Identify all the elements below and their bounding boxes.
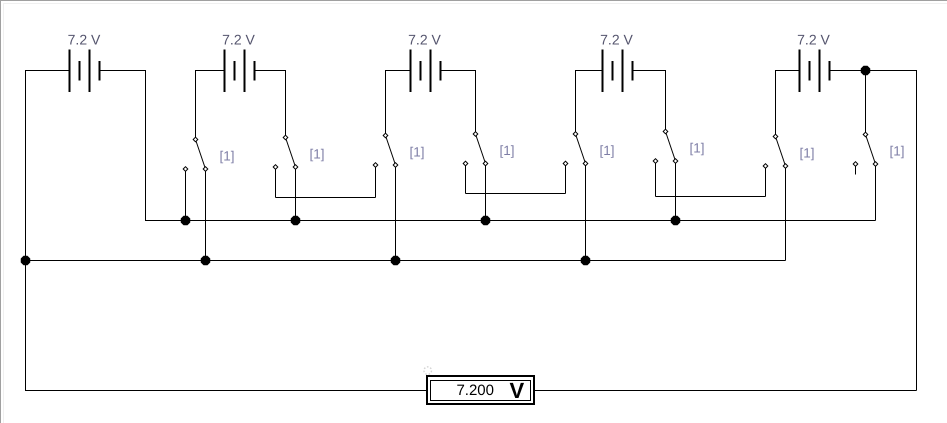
node B5 output junction	[861, 66, 870, 75]
wire S5a blade drop to bus2	[785, 166, 787, 261]
svg-text:7.2 V: 7.2 V	[222, 32, 255, 48]
svg-text:V: V	[510, 378, 525, 403]
battery B5 plates	[800, 50, 830, 93]
wire voltmeter to bottom right	[535, 390, 917, 392]
wire bypass U S3b-S4a	[466, 164, 566, 194]
wire battery B3 right lead	[440, 70, 476, 134]
battery B2 value label 7.2 V	[222, 32, 255, 48]
wire S2a left throw drop to bus1	[185, 169, 187, 221]
wire left rail vertical (x=25)	[25, 70, 27, 391]
screen border left edge	[0, 0, 2, 423]
node bus2/S3a junction	[391, 256, 400, 265]
wire S4b blade drop to bus1	[675, 161, 677, 221]
voltmeter ghost selection mark	[424, 367, 432, 375]
svg-text:[1]: [1]	[310, 147, 325, 162]
svg-text:7.200: 7.200	[456, 382, 494, 399]
wire battery B5 right lead to right rail	[829, 70, 917, 135]
svg-text:[1]: [1]	[800, 146, 815, 161]
wire battery B1 left lead	[25, 70, 71, 72]
wire battery B4 left lead	[576, 70, 604, 134]
switch S2b gang label [1]	[310, 147, 325, 162]
voltmeter M1 reading 7.200	[456, 382, 494, 399]
node bus1/S4b junction	[671, 216, 680, 225]
svg-text:[1]: [1]	[890, 144, 905, 159]
node bus1/S2b junction	[291, 216, 300, 225]
wire battery B2 right lead	[254, 70, 286, 138]
switch S4a gang label [1]	[600, 143, 615, 158]
switch S5b (SPDT blade closed to right throw)	[853, 132, 878, 166]
node bus2/S2a junction	[201, 256, 210, 265]
svg-text:[1]: [1]	[690, 141, 705, 156]
wire S3b blade drop to bus1	[485, 164, 487, 221]
wire S2a blade drop to bus2	[205, 169, 207, 261]
wire battery B3 left lead	[386, 70, 412, 136]
wire S4a blade drop to bus2	[585, 164, 587, 261]
switch S5a (SPDT blade closed to right throw)	[763, 134, 788, 168]
battery B4 value label 7.2 V	[600, 32, 633, 48]
svg-text:[1]: [1]	[500, 143, 515, 158]
battery B3 value label 7.2 V	[408, 32, 441, 48]
voltmeter M1 unit V	[510, 378, 525, 403]
wire battery B1 right lead	[99, 70, 146, 72]
battery B1 value label 7.2 V	[68, 32, 101, 48]
svg-text:7.2 V: 7.2 V	[408, 32, 441, 48]
battery B4 plates	[603, 50, 633, 93]
wire S5b unconnected throw stub	[855, 164, 857, 175]
battery B3 plates	[411, 50, 441, 93]
wire bottom left to voltmeter	[25, 390, 426, 392]
battery B5 value label 7.2 V	[797, 32, 830, 48]
switch S5a gang label [1]	[800, 146, 815, 161]
svg-text:7.2 V: 7.2 V	[797, 32, 830, 48]
wire battery B5 left lead	[776, 70, 801, 137]
node bus2/S4a junction	[581, 256, 590, 265]
switch S3b (SPDT blade closed to right throw)	[463, 132, 488, 166]
node bus1/S3b junction	[481, 216, 490, 225]
switch S2a gang label [1]	[220, 149, 235, 164]
wire bus2 horizontal (y=260)	[25, 260, 786, 262]
wire B1 right drop to bus1	[145, 70, 147, 221]
wire S3a blade drop to bus2	[395, 165, 397, 261]
wire right rail vertical (x=916)	[916, 70, 918, 391]
node bus1/B1-S2a junction	[181, 216, 190, 225]
switch S2b (SPDT blade closed to right throw)	[273, 135, 298, 169]
switch S3b gang label [1]	[500, 143, 515, 158]
svg-text:7.2 V: 7.2 V	[68, 32, 101, 48]
switch S4b (SPDT blade closed to right throw)	[653, 129, 678, 163]
wire S2b blade drop to bus1	[295, 167, 297, 221]
switch S4a (SPDT blade closed to right throw)	[563, 132, 588, 166]
wire battery B2 left lead	[196, 70, 226, 140]
wire battery B4 right lead	[632, 70, 666, 132]
battery B2 plates	[225, 50, 255, 93]
svg-text:[1]: [1]	[600, 143, 615, 158]
node bus2/left-rail junction	[21, 256, 30, 265]
switch S4b gang label [1]	[690, 141, 705, 156]
voltmeter M1 body	[427, 376, 534, 404]
wire bypass U S2b-S3a	[276, 165, 376, 198]
screen border top edge	[0, 0, 947, 2]
wire S5b blade drop to bus1	[875, 164, 877, 221]
svg-text:[1]: [1]	[410, 145, 425, 160]
wire bus1 horizontal (y=220)	[145, 220, 876, 222]
wire bypass U S4b-S5a	[656, 161, 766, 197]
switch S2a (SPDT blade closed to right throw)	[183, 137, 208, 171]
svg-text:7.2 V: 7.2 V	[600, 32, 633, 48]
switch S3a gang label [1]	[410, 145, 425, 160]
battery B1 plates	[70, 50, 100, 93]
svg-text:[1]: [1]	[220, 149, 235, 164]
switch S5b gang label [1]	[890, 144, 905, 159]
switch S3a (SPDT blade closed to right throw)	[373, 133, 398, 167]
